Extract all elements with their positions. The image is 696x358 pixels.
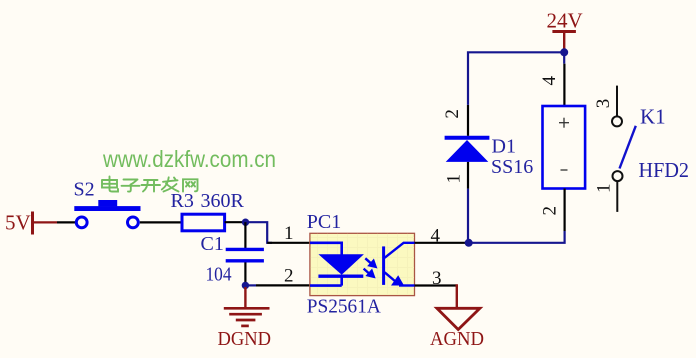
- node junction C1/DGND/pin2: [242, 282, 249, 289]
- wire junction up to D1: [467, 189, 469, 243]
- pin 2 of PC1: [256, 284, 310, 286]
- svg-text:HFD2: HFD2: [639, 158, 690, 182]
- optocoupler PC1 box: [307, 211, 415, 318]
- wire D1 up and across to 24V: [468, 52, 564, 105]
- relay contact K1 HFD2: [593, 86, 689, 212]
- 发: [162, 177, 179, 191]
- pin 2 of relay coil: [563, 189, 565, 232]
- relay coil K1: [543, 106, 586, 189]
- wire 5V to S2 pin: [57, 221, 75, 223]
- svg-text:S2: S2: [74, 179, 95, 201]
- svg-text:104: 104: [206, 264, 232, 286]
- svg-text:PC1: PC1: [307, 211, 341, 233]
- diode D1 SS16: [445, 136, 534, 179]
- svg-text:3: 3: [593, 99, 614, 109]
- switch S2: [74, 179, 141, 228]
- resistor R3 360R: [171, 190, 245, 231]
- svg-text:1: 1: [443, 174, 464, 184]
- watermark CJK 电子开发网: [102, 177, 198, 192]
- svg-text:4: 4: [539, 75, 560, 85]
- node junction pin4/D1/relay: [465, 239, 473, 247]
- pin 4 of PC1 wire to junction: [415, 242, 469, 244]
- svg-text:5V: 5V: [5, 211, 31, 235]
- wire relay pin2 down and left to junction: [469, 231, 565, 243]
- phototransistor inside PC1: [384, 243, 415, 286]
- capacitor C1 104: [201, 233, 264, 286]
- svg-text:C1: C1: [201, 233, 224, 255]
- LED inside PC1: [310, 243, 364, 286]
- pin 1 of D1: [467, 162, 469, 189]
- pin 2 of D1: [467, 105, 469, 136]
- 子: [122, 180, 140, 192]
- 网: [183, 179, 198, 191]
- 开: [142, 180, 161, 192]
- pin 4 of relay coil: [563, 64, 565, 106]
- svg-text:K1: K1: [640, 105, 666, 129]
- svg-text:360R: 360R: [201, 190, 245, 212]
- node junction 24V/relay: [560, 48, 568, 56]
- power port 24V: [547, 9, 583, 52]
- wire junction down to C1: [244, 222, 246, 248]
- svg-text:SS16: SS16: [491, 156, 533, 178]
- svg-text:R3: R3: [171, 190, 194, 212]
- svg-text:2: 2: [539, 206, 560, 216]
- 电: [102, 177, 118, 192]
- svg-text:DGND: DGND: [218, 328, 272, 350]
- wire S2 to R3: [140, 221, 182, 223]
- svg-text:24V: 24V: [547, 9, 583, 33]
- svg-text:3: 3: [432, 268, 442, 289]
- svg-text:1: 1: [284, 223, 294, 244]
- pin 1 of PC1: [267, 242, 310, 244]
- node junction R3/C1/pin1: [242, 219, 249, 226]
- wire R3 to junction: [225, 221, 246, 223]
- pin 3 of PC1 wire: [415, 284, 457, 286]
- power port 5V: [5, 211, 57, 235]
- svg-text:4: 4: [431, 226, 441, 247]
- svg-text:1: 1: [594, 183, 615, 193]
- ground AGND: [437, 286, 480, 330]
- svg-text:2: 2: [442, 109, 463, 119]
- svg-text:www.dzkfw.com.cn: www.dzkfw.com.cn: [102, 146, 276, 172]
- svg-text:D1: D1: [492, 136, 516, 158]
- svg-text:2: 2: [284, 266, 294, 287]
- ground DGND: [224, 287, 270, 326]
- light arrows LED to transistor: [364, 258, 377, 277]
- wire C1 down to junction2: [244, 262, 246, 285]
- svg-text:PS2561A: PS2561A: [307, 296, 382, 318]
- wire junction to pin1 step: [246, 222, 273, 243]
- svg-text:AGND: AGND: [430, 328, 484, 350]
